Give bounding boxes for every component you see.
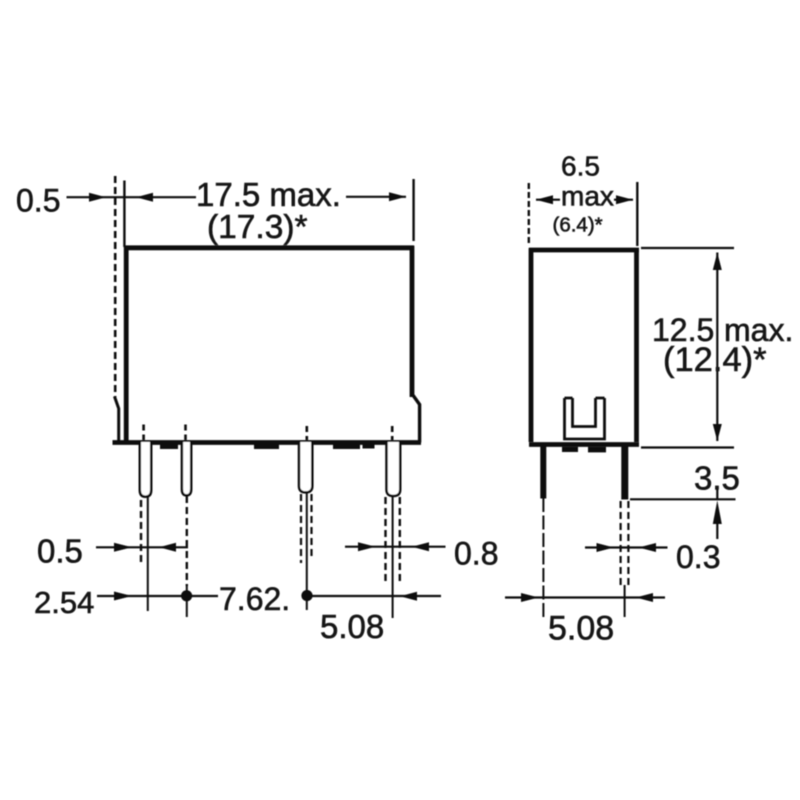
pin 4 (contact) [387, 442, 401, 496]
dimension line 6.5 max [536, 199, 633, 201]
pin 1 centerline [147, 497, 149, 611]
dimension line 5.08 side view [505, 596, 665, 598]
arrow left 5.08 left view [400, 592, 417, 601]
left extension line 6.5 [528, 183, 530, 246]
pin 1 hidden extension dashes [140, 500, 142, 565]
right extension line 6.5 [636, 182, 638, 246]
relay body side view outline [529, 248, 639, 445]
arrow right at 0.5 ref line [89, 193, 106, 202]
pin 2 hidden extension dashes [186, 496, 188, 586]
dimension line 0.5 top [67, 196, 407, 199]
base standoff bump 2 [254, 444, 279, 450]
arrow left toward right pin right edge [639, 543, 656, 552]
svg-text:5.08: 5.08 [548, 610, 614, 648]
arrow right 5.08 side [521, 593, 539, 602]
pin 3 centerline [306, 493, 308, 610]
bottom extension line 12.5 [641, 446, 734, 448]
arrow left 6.5 [536, 195, 553, 204]
svg-text:0.3: 0.3 [676, 539, 720, 575]
svg-text:2.54: 2.54 [34, 585, 94, 620]
arrow right toward pin4 left edge [358, 542, 376, 551]
side base standoff bump 2 [588, 447, 606, 453]
arrow up 3.5 (below, outside) [713, 501, 722, 525]
pin 2 centerline lower [186, 586, 188, 617]
side view left pin [540, 446, 546, 499]
left pin centerline extension [542, 498, 544, 619]
arrow right 6.5 [616, 195, 633, 204]
base standoff bump 3 [333, 444, 360, 450]
arrow right toward right pin left edge [597, 543, 614, 552]
pin 1 (coil) [140, 442, 151, 497]
arrow up 12.5 [713, 253, 722, 271]
svg-text:0.8: 0.8 [454, 536, 498, 572]
pin 3 (contact) [299, 442, 312, 492]
svg-text:(17.3)*: (17.3)* [207, 209, 308, 246]
dimension line 12.5 vertical [716, 253, 718, 442]
svg-text:0.5: 0.5 [37, 533, 83, 570]
svg-text:(12.4)*: (12.4)* [663, 341, 767, 379]
svg-text:3.5: 3.5 [694, 460, 740, 497]
hold-down clip (U shape) [565, 398, 605, 439]
pin 4 hidden top dash [391, 426, 394, 440]
top extension line 12.5 [641, 247, 734, 249]
arrow left at body left edge [136, 193, 153, 202]
pin 4 hidden extension dashes [386, 497, 400, 585]
side view right pin [621, 446, 628, 500]
pin 2 (coil) [182, 442, 191, 495]
dimension line 0.5 pin width [96, 546, 188, 548]
dimension line 3.5 [716, 487, 718, 499]
pin 3 hidden top dash [305, 426, 308, 440]
svg-text:max: max [561, 181, 614, 212]
right pin centerline lower [624, 585, 626, 617]
relay body front view outline [113, 246, 422, 443]
arrow left toward pin1 right edge [159, 543, 176, 552]
tail 3.5 arrow [716, 524, 718, 539]
pin 2 hidden top dash [184, 425, 187, 441]
base standoff bump 4 [363, 444, 375, 449]
svg-text:7.62.: 7.62. [219, 581, 290, 617]
right pin hidden edge dashes [621, 501, 629, 585]
right flange notch [413, 396, 419, 443]
left flange notch [115, 397, 119, 442]
dimension line 0.8 pin width [345, 546, 446, 548]
svg-text:0.5: 0.5 [16, 183, 60, 219]
arrow left toward pin4 right edge [412, 542, 429, 551]
dimension line 2.54 / 7.62 [97, 595, 441, 597]
side base standoff bump 1 [562, 447, 578, 452]
pin 3 hidden extension dashes [301, 494, 312, 563]
svg-text:6.5: 6.5 [561, 151, 600, 182]
arrow left 5.08 side [636, 593, 653, 602]
arrow right at body right edge [389, 192, 406, 201]
pin 4 centerline [392, 497, 394, 618]
dimension line 0.3 [585, 546, 668, 548]
left body-edge extension line [123, 181, 125, 248]
svg-text:17.5 max.: 17.5 max. [196, 176, 341, 213]
base standoff bump 1 [160, 444, 178, 450]
dashed 0.5 reference line top-left [114, 176, 117, 397]
svg-text:(6.4)*: (6.4)* [553, 214, 603, 237]
pin 1 hidden top dash [142, 425, 145, 441]
arrow right 2.54 [114, 592, 132, 601]
right body-edge extension line [412, 179, 414, 241]
arrow down 12.5 [713, 424, 722, 441]
arrow right toward pin1 left edge [114, 543, 132, 552]
pin tip extension line 3.5 [630, 498, 736, 500]
svg-text:5.08: 5.08 [320, 608, 384, 645]
datum dot pin 3 [301, 590, 312, 601]
datum dot pin 2 [181, 590, 192, 601]
